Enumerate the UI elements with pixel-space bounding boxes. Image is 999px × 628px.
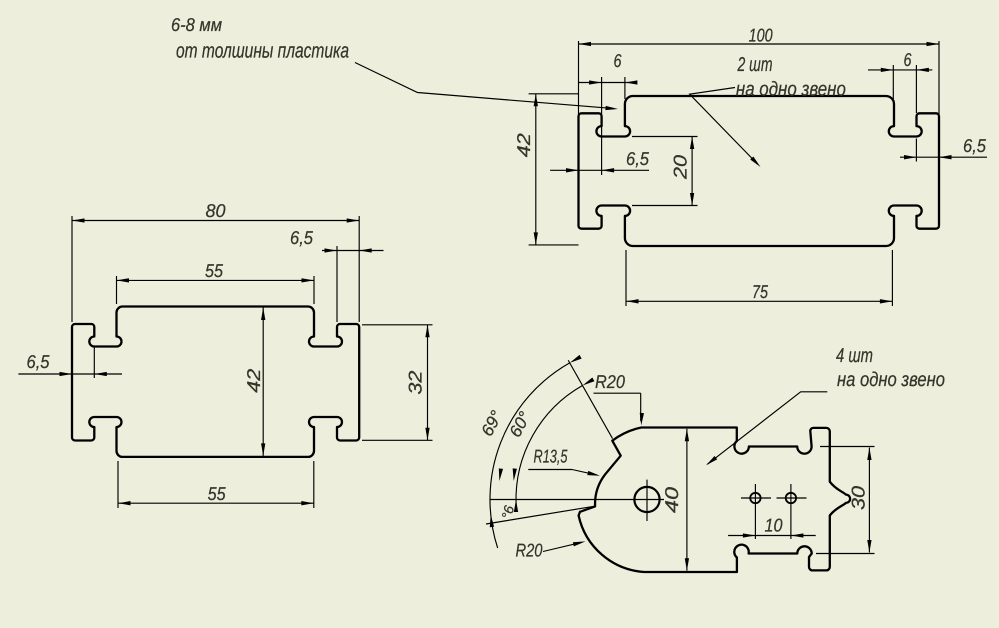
svg-text:6-8 мм: 6-8 мм (171, 14, 222, 35)
svg-text:20: 20 (670, 154, 691, 180)
svg-text:6: 6 (904, 49, 913, 70)
svg-text:от толшины пластика: от толшины пластика (176, 40, 349, 63)
svg-text:10: 10 (765, 515, 784, 536)
angle arc tick arrow b (513, 468, 517, 481)
angle ray 6deg (486, 506, 594, 524)
svg-text:100: 100 (749, 25, 774, 46)
dim 10 hole spacing of C (728, 535, 816, 537)
svg-text:R13,5: R13,5 (534, 446, 568, 467)
svg-text:6: 6 (614, 50, 623, 71)
svg-text:на одно звено: на одно звено (837, 369, 945, 391)
small hole 1 of C (750, 493, 760, 503)
small hole 1 crosshair (741, 497, 771, 499)
svg-text:40: 40 (661, 486, 682, 513)
svg-text:32: 32 (405, 370, 426, 395)
svg-text:6,5: 6,5 (626, 148, 650, 169)
dim 80 width of B (72, 220, 359, 222)
profile A outline (2 pcs link plate 100x42) (579, 96, 940, 246)
svg-text:6,5: 6,5 (963, 135, 987, 156)
dim 6,5 right wing of A (900, 156, 987, 158)
dim 32 wing height of B (427, 325, 429, 441)
svg-text:6,5: 6,5 (290, 227, 314, 248)
dim 55 top body of B (117, 279, 315, 281)
dim 20 web of A (691, 137, 693, 206)
angle dim arc 60 (516, 385, 582, 504)
dim 6,5 left wing of A (550, 169, 649, 171)
dim 42 height of A (535, 94, 537, 245)
angle ray 60deg (568, 360, 612, 438)
small hole 2 crosshair (777, 497, 807, 499)
dim 40 height of C (686, 429, 688, 571)
center hole of C (634, 487, 659, 512)
svg-text:42: 42 (243, 368, 264, 393)
svg-text:55: 55 (208, 483, 227, 504)
svg-text:55: 55 (205, 260, 224, 281)
dim 30 right of C (868, 448, 870, 553)
small hole 2 of C (786, 493, 796, 503)
dim 75 bottom of A (626, 300, 892, 302)
link plate C outline (4 pcs) (579, 428, 851, 573)
svg-text:75: 75 (752, 281, 769, 302)
dim 6 right channel of A (868, 69, 932, 71)
angle dim arc 69 (490, 363, 570, 548)
dim 55 bottom body of B (118, 502, 314, 504)
svg-text:на одно звено: на одно звено (736, 79, 846, 101)
dim 100 top width of A (579, 43, 940, 45)
svg-text:80: 80 (206, 200, 227, 221)
svg-text:42: 42 (513, 132, 534, 157)
svg-text:4 шт: 4 шт (836, 345, 873, 367)
svg-text:2 шт: 2 шт (737, 54, 773, 76)
svg-text:6,5: 6,5 (27, 351, 51, 372)
dim 42 height of B (262, 308, 264, 456)
center hole crosshair (490, 499, 664, 501)
dim 6,5 right wing of B (322, 250, 384, 252)
dim 6,5 left wing of B (18, 373, 122, 375)
svg-text:30: 30 (848, 485, 869, 510)
profile B outline (plate 80x42) (72, 307, 359, 457)
svg-text:R20: R20 (516, 540, 544, 561)
dim 6 left channel of A (578, 82, 636, 84)
svg-text:R20: R20 (595, 371, 626, 392)
angle arc tick arrow a (499, 468, 503, 481)
